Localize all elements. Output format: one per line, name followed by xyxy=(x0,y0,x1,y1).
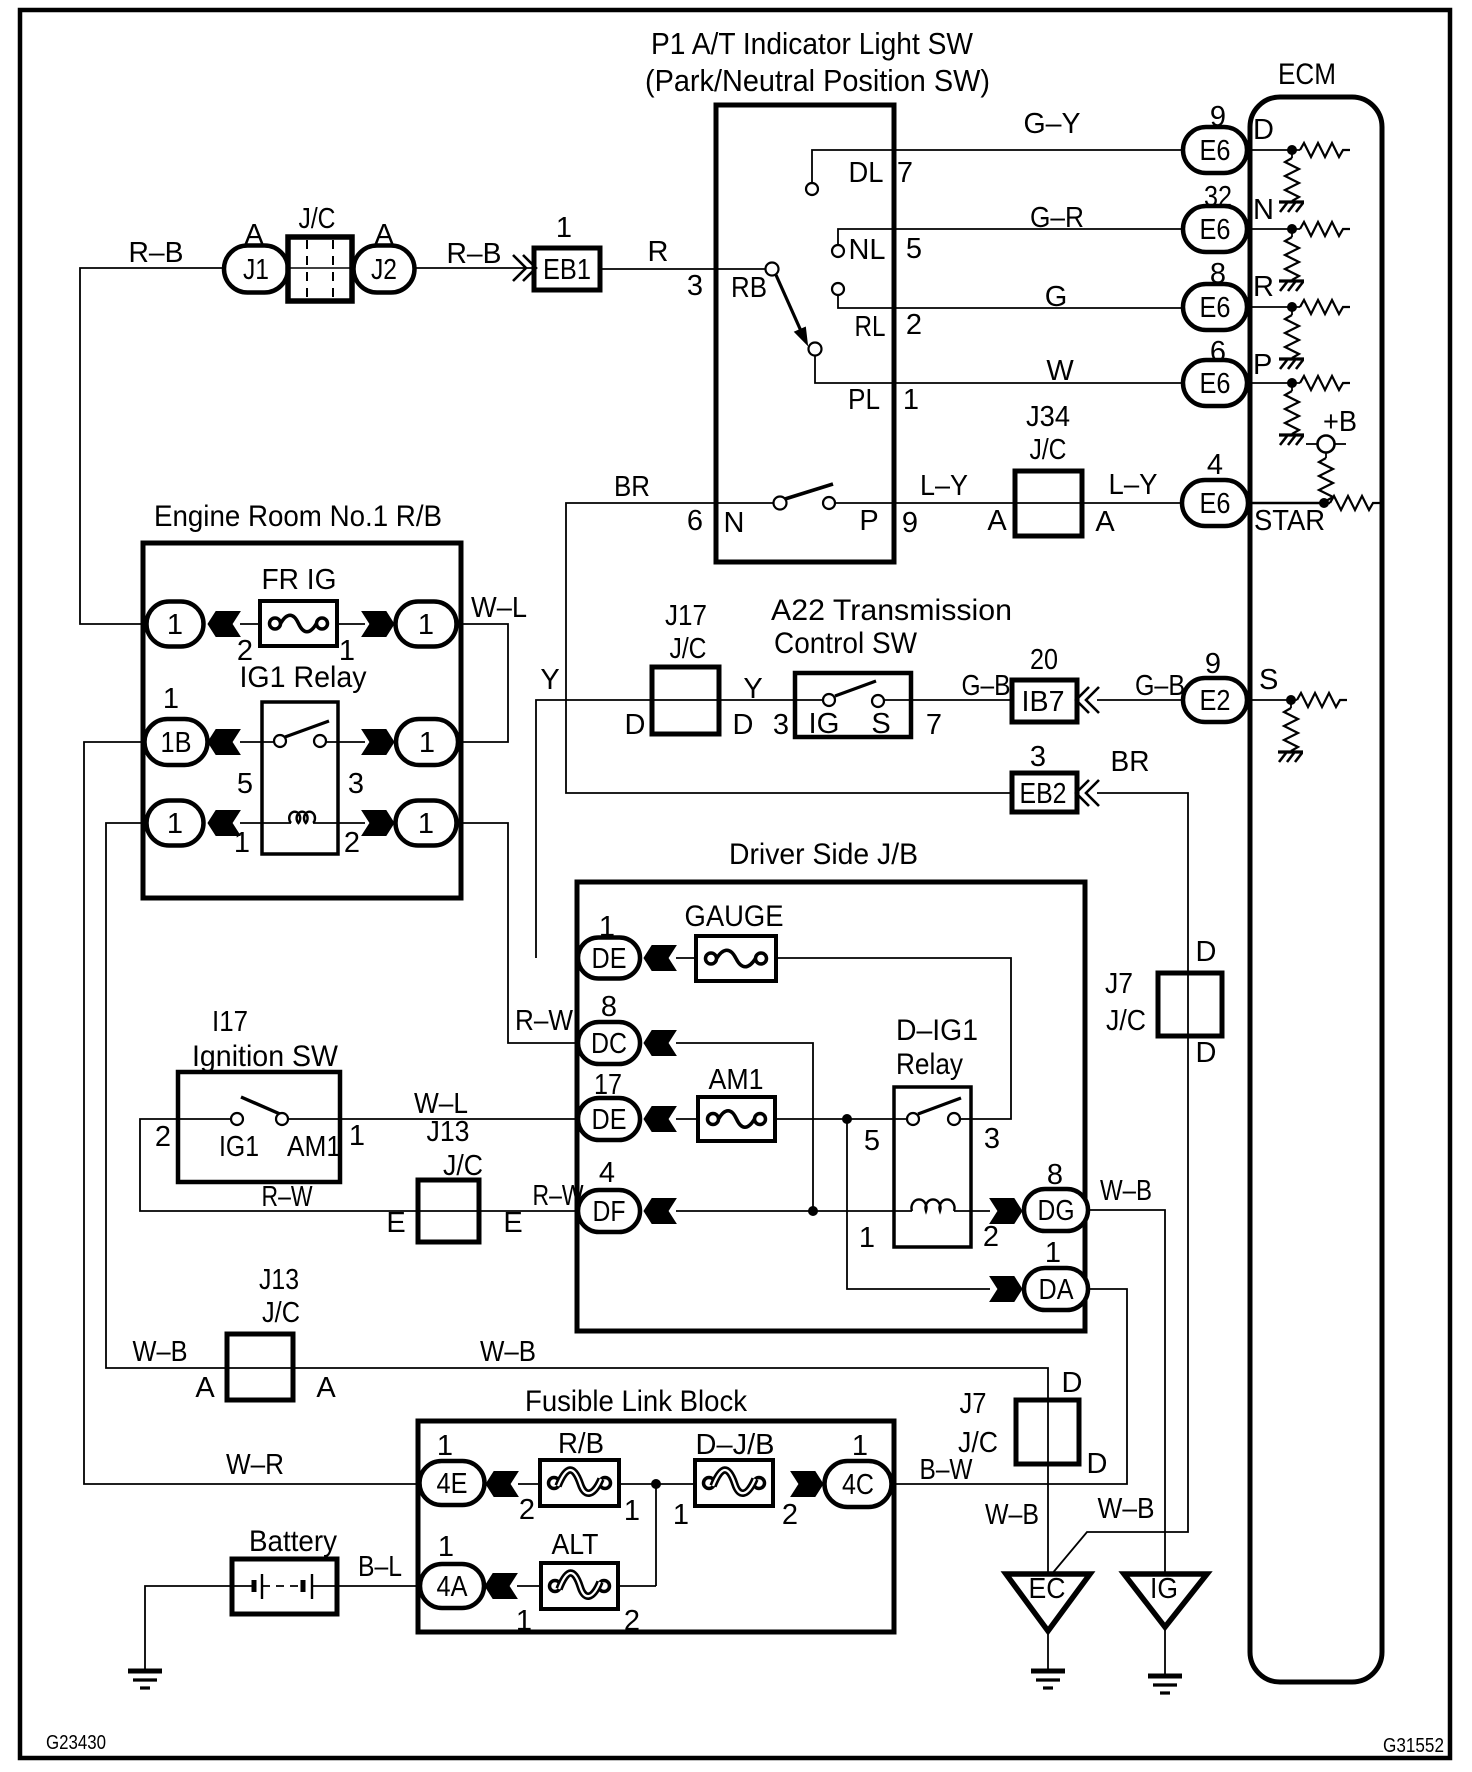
svg-text:1: 1 xyxy=(556,212,572,244)
svg-text:J13: J13 xyxy=(427,1116,470,1148)
svg-text:9: 9 xyxy=(902,507,918,539)
connector 1 (FR IG right) xyxy=(396,602,457,647)
svg-text:Y: Y xyxy=(743,673,762,705)
svg-text:W–B: W–B xyxy=(480,1336,536,1368)
connector 4C xyxy=(825,1461,892,1507)
svg-text:1: 1 xyxy=(349,1120,365,1152)
arrow into coil row xyxy=(208,811,240,836)
svg-text:8: 8 xyxy=(1047,1159,1063,1191)
svg-text:NL: NL xyxy=(849,234,886,266)
svg-text:G–B: G–B xyxy=(1135,670,1185,702)
svg-text:RB: RB xyxy=(731,272,767,304)
svg-text:1: 1 xyxy=(859,1222,875,1254)
wire W-B through J13 to J7 xyxy=(227,1368,1048,1574)
svg-text:ECM: ECM xyxy=(1278,58,1336,91)
+B terminal xyxy=(1318,436,1335,453)
switch blade (A22) xyxy=(835,681,876,696)
battery box xyxy=(232,1559,337,1614)
wire coil-row to DC xyxy=(457,823,578,1043)
svg-text:J/C: J/C xyxy=(443,1150,483,1182)
svg-text:2: 2 xyxy=(624,1605,640,1637)
junction J13 J/C box (lower) xyxy=(227,1334,293,1400)
svg-text:BR: BR xyxy=(1111,746,1150,778)
wire to R/B link xyxy=(518,1483,540,1485)
svg-text:D: D xyxy=(1253,114,1274,146)
wire coil to right xyxy=(313,822,365,824)
arrow out of FR IG xyxy=(362,612,394,637)
pull resistor (R) xyxy=(1291,312,1293,316)
svg-text:P: P xyxy=(1253,349,1272,381)
svg-text:IG1 Relay: IG1 Relay xyxy=(240,661,367,694)
svg-text:5: 5 xyxy=(906,233,922,265)
svg-text:2: 2 xyxy=(155,1121,171,1153)
svg-text:E6: E6 xyxy=(1200,214,1231,246)
switch blade (ignition) xyxy=(241,1097,280,1114)
arrow into DE am1 xyxy=(644,1107,676,1132)
svg-text:1: 1 xyxy=(167,808,183,840)
svg-text:Fusible Link Block: Fusible Link Block xyxy=(525,1385,748,1418)
svg-text:S: S xyxy=(871,708,890,740)
svg-text:E: E xyxy=(503,1207,522,1239)
resistor to R comparator xyxy=(1300,300,1350,314)
svg-text:EB1: EB1 xyxy=(543,254,591,286)
svg-text:GAUGE: GAUGE xyxy=(685,900,784,933)
EC ground lead xyxy=(1047,1631,1049,1669)
svg-text:A: A xyxy=(316,1372,336,1404)
wire relay5-junction to DA xyxy=(847,1119,990,1289)
svg-text:W–B: W–B xyxy=(1100,1175,1152,1207)
fusible link D-J/B xyxy=(695,1460,773,1506)
connector 1 (coil row left) xyxy=(147,801,204,846)
svg-text:FR IG: FR IG xyxy=(262,564,337,596)
junction J34 J/C box xyxy=(1015,471,1082,536)
wire P to J34 to E6 STAR (L-Y) xyxy=(835,502,1183,504)
IG ground lead xyxy=(1164,1627,1166,1674)
resistor S xyxy=(1297,693,1347,707)
svg-text:D: D xyxy=(1196,1037,1217,1069)
wire to GAUGE fuse xyxy=(676,957,696,959)
arrow into R/B link xyxy=(486,1472,518,1497)
arrow out to DG xyxy=(990,1199,1022,1224)
connector E6 pin 4 (STAR) xyxy=(1182,480,1248,526)
ECM internal wire/junction (R) xyxy=(1247,306,1300,308)
relay coil (D-IG1) xyxy=(912,1199,955,1211)
svg-text:1: 1 xyxy=(418,808,434,840)
svg-text:DE: DE xyxy=(592,943,627,975)
svg-text:J/C: J/C xyxy=(262,1297,300,1329)
chevron out of EB2 xyxy=(1086,780,1099,806)
switch N-P wire xyxy=(716,502,773,504)
svg-text:PL: PL xyxy=(848,384,880,416)
svg-text:7: 7 xyxy=(897,157,913,189)
wire R/B to D-J/B xyxy=(619,1483,695,1485)
wire IG1 contact to right xyxy=(326,741,365,743)
chassis ground (R) xyxy=(1279,359,1304,369)
arrow out to DA xyxy=(990,1277,1022,1302)
arrow into DC xyxy=(644,1031,676,1056)
svg-text:2: 2 xyxy=(983,1221,999,1253)
svg-text:IB7: IB7 xyxy=(1022,686,1065,718)
contact IG (A22) xyxy=(823,694,835,706)
pull resistor (P) xyxy=(1291,388,1293,392)
arrow into DE gauge xyxy=(644,946,676,971)
svg-text:Control SW: Control SW xyxy=(774,627,918,660)
svg-text:W–B: W–B xyxy=(985,1499,1039,1531)
fuse AM1 xyxy=(698,1097,775,1141)
svg-text:N: N xyxy=(1253,194,1274,226)
wire into IG1 contact xyxy=(178,1118,231,1120)
svg-text:D–IG1: D–IG1 xyxy=(896,1014,978,1047)
svg-text:1: 1 xyxy=(1045,1237,1061,1269)
junction J7 J/C box (lower) xyxy=(1016,1400,1079,1464)
svg-text:5: 5 xyxy=(864,1125,880,1157)
svg-text:A: A xyxy=(1095,506,1115,538)
svg-text:1: 1 xyxy=(516,1605,532,1637)
svg-text:J/C: J/C xyxy=(958,1427,998,1459)
svg-text:2: 2 xyxy=(344,827,360,859)
svg-text:G–B: G–B xyxy=(962,670,1011,702)
wire ALT to junction branch xyxy=(618,1585,656,1587)
wire R-B from J1 to FR IG xyxy=(80,268,224,624)
connector DF xyxy=(578,1190,640,1232)
wire battery to 4A xyxy=(337,1585,420,1587)
fusible link R/B xyxy=(540,1460,619,1506)
contact RL with wire G to E6 xyxy=(838,295,1183,308)
svg-text:1: 1 xyxy=(673,1499,689,1531)
svg-text:W–B: W–B xyxy=(1098,1493,1155,1525)
junction J13 J/C box (upper) xyxy=(418,1180,479,1242)
wire BR from EB2 to J7 J/C xyxy=(1051,793,1188,1575)
connector 1 (IG1 relay right) xyxy=(396,719,458,765)
ECM internal wire STAR xyxy=(1247,502,1330,505)
svg-text:G–R: G–R xyxy=(1030,202,1084,234)
connector 1 (FR IG left) xyxy=(147,602,204,647)
connector J2 xyxy=(354,246,415,293)
svg-text:IG1: IG1 xyxy=(219,1131,259,1163)
contact AM1 xyxy=(276,1113,288,1125)
svg-text:N: N xyxy=(724,507,745,539)
svg-text:L–Y: L–Y xyxy=(1109,469,1158,501)
wire FR IG to right connector xyxy=(337,623,365,625)
svg-text:R: R xyxy=(648,236,669,268)
wire DF to relay coil xyxy=(676,1210,912,1212)
Driver Side J/B box xyxy=(577,882,1085,1331)
svg-text:D: D xyxy=(1196,936,1217,968)
wire contact 3 to right xyxy=(960,1118,971,1120)
wire G-B IB7 to E2 xyxy=(1097,699,1183,701)
svg-text:DA: DA xyxy=(1039,1274,1075,1306)
svg-text:W–L: W–L xyxy=(471,592,527,624)
wire R from EB1 to P1 pin 3 xyxy=(600,268,766,270)
svg-text:G31552: G31552 xyxy=(1383,1735,1444,1757)
switch blade N-P xyxy=(785,484,833,499)
svg-text:9: 9 xyxy=(1205,648,1221,680)
svg-text:E2: E2 xyxy=(1200,685,1231,717)
svg-text:1: 1 xyxy=(418,609,434,641)
svg-text:+B: +B xyxy=(1323,406,1357,438)
connector 4A xyxy=(420,1564,484,1608)
wire BR from P1 pin 6 to EB2 xyxy=(566,503,1012,793)
Engine Room No.1 R/B box xyxy=(143,543,461,898)
svg-text:20: 20 xyxy=(1030,644,1058,676)
svg-text:3: 3 xyxy=(773,709,789,741)
connector 1 (coil row right) xyxy=(396,801,457,846)
+B resistor xyxy=(1325,453,1327,459)
junction J7 J/C box (upper) xyxy=(1158,973,1222,1036)
svg-text:A: A xyxy=(195,1372,215,1404)
svg-text:3: 3 xyxy=(687,270,703,302)
pull resistor (N) xyxy=(1291,234,1293,238)
contact right (IG1 relay) xyxy=(314,735,326,747)
svg-text:3: 3 xyxy=(1030,741,1046,773)
fuse GAUGE xyxy=(696,936,776,981)
Fusible Link Block box xyxy=(418,1421,894,1632)
svg-text:1: 1 xyxy=(438,1531,454,1563)
svg-text:D–J/B: D–J/B xyxy=(696,1429,775,1461)
svg-text:DE: DE xyxy=(592,1104,627,1136)
wire to IG1 contact xyxy=(240,741,274,743)
IG ground triangle xyxy=(1124,1574,1207,1627)
wire junction to ALT xyxy=(655,1484,657,1586)
chevron out of IB7 xyxy=(1086,687,1099,713)
contact N xyxy=(774,497,787,510)
connector 4E xyxy=(420,1461,485,1505)
resistor to D comparator xyxy=(1300,143,1350,157)
EC earth ground xyxy=(1031,1671,1065,1688)
switch blade (D-IG1) xyxy=(918,1098,961,1114)
svg-text:8: 8 xyxy=(601,991,617,1023)
svg-text:BR: BR xyxy=(614,471,650,503)
svg-text:2: 2 xyxy=(782,1499,798,1531)
svg-text:Y: Y xyxy=(540,664,559,696)
svg-text:J/C: J/C xyxy=(670,633,707,665)
junction dot AM1/relay5/DA xyxy=(843,1115,852,1124)
svg-text:2: 2 xyxy=(906,309,922,341)
svg-text:(Park/Neutral Position SW): (Park/Neutral Position SW) xyxy=(645,63,990,98)
battery earth ground xyxy=(128,1671,162,1688)
wire to ALT link xyxy=(517,1585,541,1587)
arrow out of coil row xyxy=(362,811,394,836)
contact 5 (D-IG1) xyxy=(907,1113,919,1125)
contact DL with wire G-Y to E6 xyxy=(812,150,1183,183)
svg-text:D: D xyxy=(625,709,646,741)
svg-text:Engine Room No.1 R/B: Engine Room No.1 R/B xyxy=(154,500,442,533)
connector E2 pin 9 xyxy=(1183,678,1247,722)
svg-text:J2: J2 xyxy=(371,254,397,286)
svg-text:1: 1 xyxy=(419,727,435,759)
svg-text:RL: RL xyxy=(855,311,886,343)
svg-text:R–W: R–W xyxy=(262,1181,313,1213)
svg-text:1: 1 xyxy=(852,1430,868,1462)
svg-text:EB2: EB2 xyxy=(1020,778,1067,810)
chassis ground (D) xyxy=(1279,202,1304,212)
svg-text:IG: IG xyxy=(1150,1573,1178,1605)
svg-text:G23430: G23430 xyxy=(46,1732,106,1754)
wire Y from corner to J17 to A22 xyxy=(536,700,823,958)
resistor STAR xyxy=(1330,496,1380,510)
junction dot (R/B out) xyxy=(652,1480,661,1489)
contact 3 (D-IG1) xyxy=(948,1113,960,1125)
junction J/C box (J1-J2) xyxy=(288,237,352,301)
arrow into FR IG xyxy=(208,612,240,637)
wire battery to ground xyxy=(145,1586,232,1669)
arrow out to 4C xyxy=(791,1472,823,1497)
connector DA xyxy=(1024,1268,1088,1310)
svg-text:J17: J17 xyxy=(665,600,707,632)
svg-text:J7: J7 xyxy=(1105,968,1133,1000)
resistor to N comparator xyxy=(1300,222,1350,236)
fuse FR IG xyxy=(260,601,337,646)
wire 1B to W-R rail xyxy=(84,742,422,1484)
svg-text:P: P xyxy=(859,505,878,537)
chevron into EB1 xyxy=(513,255,526,281)
connector 1B xyxy=(145,719,208,765)
wire DA to 4C (B-W) xyxy=(892,1289,1127,1484)
contact PL with wire W to E6 xyxy=(815,355,1183,383)
svg-text:J/C: J/C xyxy=(299,203,336,235)
svg-text:IG: IG xyxy=(809,708,840,740)
wire IG1 pin 2 to J13 to DF (R-W) xyxy=(140,1119,578,1211)
contact IG1 xyxy=(231,1113,243,1125)
svg-text:G: G xyxy=(1045,281,1068,313)
connector DE (GAUGE) xyxy=(578,938,640,979)
svg-text:L–Y: L–Y xyxy=(920,470,968,502)
svg-text:D: D xyxy=(733,709,754,741)
svg-text:E6: E6 xyxy=(1200,292,1231,324)
svg-text:3: 3 xyxy=(348,768,364,800)
wire DG to IG ground (W-B) xyxy=(1088,1210,1165,1574)
selector arrow RB to PL xyxy=(776,275,801,331)
svg-text:A22 Transmission: A22 Transmission xyxy=(771,594,1012,627)
svg-text:R/B: R/B xyxy=(558,1428,604,1460)
wire coil-left 1 to J13 J/C (W-B) xyxy=(106,823,227,1368)
wire R-B J2 to EB1 xyxy=(414,267,534,269)
connector EB1 xyxy=(534,248,600,290)
ECM internal wire/junction (N) xyxy=(1247,228,1300,230)
battery cells xyxy=(232,1585,253,1587)
ECM internal wire/junction (P) xyxy=(1247,382,1300,384)
I17 ignition switch box xyxy=(178,1072,340,1182)
wire G-B A22 to IB7 xyxy=(884,699,1012,701)
arrow into ALT link xyxy=(485,1574,517,1599)
svg-text:EC: EC xyxy=(1029,1573,1066,1605)
P1 switch box xyxy=(716,105,894,562)
chassis ground (P) xyxy=(1279,435,1304,445)
svg-text:J1: J1 xyxy=(243,254,269,286)
junction dot DC/DF xyxy=(809,1207,818,1216)
svg-text:Battery: Battery xyxy=(249,1525,337,1558)
svg-text:1B: 1B xyxy=(161,727,192,759)
wire FR IG row xyxy=(240,623,260,625)
svg-text:1: 1 xyxy=(437,1430,453,1462)
svg-text:4: 4 xyxy=(1207,449,1223,481)
svg-text:I17: I17 xyxy=(212,1006,248,1038)
svg-text:1: 1 xyxy=(903,384,919,416)
svg-text:R: R xyxy=(1253,271,1274,303)
svg-text:J13: J13 xyxy=(259,1264,299,1296)
svg-text:E6: E6 xyxy=(1200,135,1231,167)
pull resistor (D) xyxy=(1291,155,1293,159)
svg-text:W: W xyxy=(1046,355,1074,387)
ECM box xyxy=(1250,97,1382,1682)
fusible link ALT xyxy=(541,1563,618,1609)
ECM internal wire/junction (D) xyxy=(1247,149,1300,151)
contact RB xyxy=(766,263,779,276)
svg-text:Ignition SW: Ignition SW xyxy=(192,1040,339,1073)
svg-text:5: 5 xyxy=(237,768,253,800)
svg-text:2: 2 xyxy=(519,1494,535,1526)
wire coil row xyxy=(240,822,291,824)
chassis ground (N) xyxy=(1279,281,1304,291)
wire DC to DF junction xyxy=(676,1043,813,1211)
contact NL with wire G-R to E6 xyxy=(838,229,1183,245)
connector DC xyxy=(578,1022,640,1064)
wire coil to DG xyxy=(954,1210,990,1212)
svg-text:E6: E6 xyxy=(1200,488,1231,520)
wire W-L loop to IG1 relay xyxy=(457,624,508,742)
svg-text:D: D xyxy=(1087,1448,1108,1480)
svg-text:J7: J7 xyxy=(960,1388,987,1420)
svg-text:E6: E6 xyxy=(1200,368,1231,400)
D-IG1 relay box xyxy=(894,1087,971,1247)
svg-text:DG: DG xyxy=(1038,1195,1075,1227)
svg-text:E: E xyxy=(386,1207,405,1239)
svg-text:1: 1 xyxy=(624,1495,640,1527)
svg-text:STAR: STAR xyxy=(1254,505,1325,537)
A22 transmission control switch box xyxy=(795,673,911,737)
svg-text:G–Y: G–Y xyxy=(1024,108,1081,140)
svg-text:A: A xyxy=(987,505,1007,537)
svg-text:AM1: AM1 xyxy=(709,1064,764,1096)
svg-text:3: 3 xyxy=(984,1123,1000,1155)
connector EB2 xyxy=(1012,773,1077,812)
wire AM1 fuse to relay contact 5 xyxy=(775,1118,907,1120)
svg-text:R–B: R–B xyxy=(447,238,502,270)
svg-text:4: 4 xyxy=(599,1157,615,1189)
wire GAUGE to relay contact 3 xyxy=(776,958,1011,1119)
svg-text:S: S xyxy=(1259,664,1278,696)
connector DG xyxy=(1024,1189,1088,1231)
svg-text:7: 7 xyxy=(926,709,942,741)
svg-text:P1 A/T Indicator Light SW: P1 A/T Indicator Light SW xyxy=(651,26,974,61)
connector IB7 xyxy=(1012,680,1077,722)
wire AM1 to DE xyxy=(288,1118,578,1120)
svg-text:4E: 4E xyxy=(437,1468,468,1500)
arrow into DF xyxy=(644,1199,676,1224)
svg-text:DF: DF xyxy=(593,1196,626,1228)
svg-text:4C: 4C xyxy=(842,1469,874,1501)
chassis ground S xyxy=(1278,752,1303,762)
svg-text:R–B: R–B xyxy=(129,237,184,269)
svg-text:J34: J34 xyxy=(1026,401,1070,433)
contact left (IG1 relay) xyxy=(274,735,286,747)
relay coil (IG1) xyxy=(289,812,315,823)
EC ground triangle xyxy=(1006,1574,1090,1631)
IG earth ground xyxy=(1148,1676,1182,1693)
connector DE (AM1) xyxy=(578,1098,640,1140)
svg-text:AM1: AM1 xyxy=(287,1131,341,1163)
svg-text:J/C: J/C xyxy=(1106,1005,1146,1037)
pull resistor S xyxy=(1290,705,1292,709)
connector J1 xyxy=(224,246,288,293)
contact S (A22) xyxy=(872,695,884,707)
arrow into IG1 relay xyxy=(208,730,240,755)
svg-text:Driver Side J/B: Driver Side J/B xyxy=(729,838,918,871)
IG1 relay box xyxy=(262,702,338,854)
resistor to P comparator xyxy=(1300,376,1350,390)
svg-text:B–L: B–L xyxy=(358,1551,402,1583)
contact P xyxy=(823,497,835,509)
